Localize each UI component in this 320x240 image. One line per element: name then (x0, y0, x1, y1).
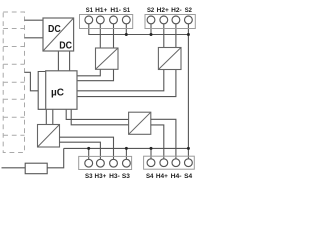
wire: µC right 3 to isolator CH2 (a) (77, 70, 164, 91)
terminal S3a (85, 159, 93, 167)
wire: terminal H2+ down to isolator CH2 (163, 24, 165, 48)
terminal block bottom-left (79, 156, 132, 169)
terminal S4b (185, 159, 193, 167)
wire: terminal S2b down right side to terminal S4b (187, 24, 189, 159)
wire: bus connector to DC/DC input 2 (25, 37, 44, 39)
shield bus S (top): S1 terminals across to S2, down right side to bottom (89, 24, 189, 35)
svg-text:S4: S4 (146, 173, 154, 180)
svg-text:S3: S3 (122, 173, 130, 180)
terminal H4+ (160, 159, 168, 167)
wire: DC/DC to µC right (69, 51, 71, 71)
wire: DC/DC to µC left (57, 51, 59, 71)
terminal S3b (123, 159, 131, 167)
wire: fuse to shield bus (47, 148, 64, 167)
wire: µC bottom to isolator CH3 (b) (52, 109, 54, 124)
stub: terminal S3a to shield bus (88, 148, 90, 159)
svg-text:H2-: H2- (171, 7, 182, 14)
junction S2a (150, 33, 153, 36)
svg-text:S3: S3 (85, 173, 93, 180)
isolator CH3 (38, 125, 60, 148)
svg-text:H3-: H3- (109, 173, 120, 180)
terminal block bottom-right (144, 156, 195, 169)
wire: isolator CH4 out to terminal H4+ (151, 125, 164, 159)
labels channel 1 (86, 7, 131, 14)
terminal block top-left (80, 15, 133, 29)
stub: terminal S3b to shield bus (125, 148, 127, 159)
terminal S2b (185, 16, 193, 24)
wire: µC right 1 to isolator CH1 (a) (77, 69, 100, 76)
wire: isolator CH3 out to terminal H3+ (60, 142, 101, 159)
terminal H2- (172, 16, 180, 24)
svg-text:S2: S2 (185, 7, 193, 14)
terminal S1b (122, 16, 130, 24)
wire: µC bottom to isolator CH3 (a) (45, 109, 47, 124)
junction S4a (150, 147, 153, 150)
terminal H4- (172, 159, 180, 167)
terminal H2+ (160, 16, 168, 24)
wire: left edge to fuse (2, 167, 26, 169)
wire: µC right 4 to isolator CH2 (b) (77, 70, 176, 97)
wire: isolator CH3 out to terminal H3- (60, 137, 114, 159)
svg-text:H1-: H1- (110, 7, 121, 14)
svg-text:S2: S2 (147, 7, 155, 14)
DIN-rail bus connector (dashed outline) (3, 12, 24, 153)
wire: terminal H1- down to isolator CH1 (113, 24, 115, 48)
wire: isolator CH4 out to terminal H4- (151, 119, 176, 159)
labels channel 2 (147, 7, 192, 14)
terminal H1+ (96, 16, 104, 24)
svg-text:H3+: H3+ (95, 173, 107, 180)
isolator CH2 (158, 48, 181, 70)
wire: terminal H1+ down to isolator CH1 (99, 24, 101, 48)
µC microcontroller box (46, 71, 77, 110)
svg-text:S1: S1 (86, 7, 94, 14)
wire: µC bottom to isolator CH4 (b) (71, 109, 128, 125)
wire: µC right 2 to isolator CH1 (b) (77, 69, 114, 80)
shield bus S (bottom) (64, 147, 189, 149)
wire: terminal H2- down to isolator CH2 (175, 24, 177, 48)
DC/DC converter (43, 18, 74, 52)
stub: terminal S2a to shield bus (150, 24, 152, 35)
svg-text:S4: S4 (184, 173, 192, 180)
bracket on µC left side (38, 72, 46, 110)
wire: µC bottom to isolator CH4 (a) (66, 109, 128, 119)
svg-text:H4+: H4+ (156, 173, 168, 180)
stub: terminal S4a to shield bus (150, 148, 152, 159)
terminal S4a (147, 159, 155, 167)
isolator CH1 (96, 48, 119, 69)
junction S4b (187, 147, 190, 150)
terminal H3+ (97, 159, 105, 167)
svg-text:H4-: H4- (171, 173, 182, 180)
svg-text:µC: µC (51, 88, 64, 99)
junction S3a (87, 147, 90, 150)
labels channel 3 (85, 173, 130, 180)
fuse (25, 163, 47, 174)
isolator CH4 (129, 112, 151, 134)
svg-text:S1: S1 (123, 7, 131, 14)
labels channel 4 (146, 173, 193, 180)
svg-text:DC: DC (59, 40, 72, 52)
junction S3b (125, 147, 128, 150)
stub: terminal S1b to shield bus (125, 24, 127, 35)
junction S1b (125, 33, 128, 36)
wire: bus connector to µC (jog) (25, 72, 39, 91)
terminal block top-right (145, 15, 195, 29)
svg-text:H2+: H2+ (157, 7, 169, 14)
wire: bus connector to DC/DC input 1 (25, 19, 44, 21)
junction S2b (187, 33, 190, 36)
terminal S1a (85, 16, 93, 24)
svg-text:DC: DC (48, 23, 61, 35)
terminal S2a (147, 16, 155, 24)
svg-text:H1+: H1+ (95, 7, 107, 14)
terminal H1- (110, 16, 118, 24)
terminal H3- (110, 159, 118, 167)
